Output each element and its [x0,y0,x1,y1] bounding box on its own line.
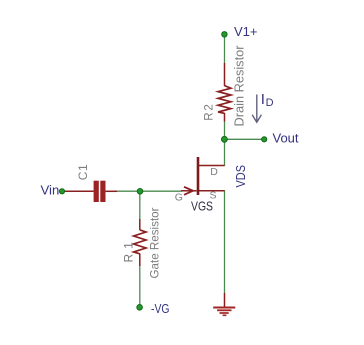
svg-text:D: D [210,166,218,178]
svg-text:Vin: Vin [41,182,60,197]
svg-text:Gate Resistor: Gate Resistor [148,207,162,278]
svg-text:-VG: -VG [151,302,170,316]
svg-text:R2: R2 [204,102,216,120]
svg-text:I: I [261,91,265,108]
svg-text:V1+: V1+ [234,24,258,39]
svg-text:D: D [266,97,274,109]
svg-text:Vout: Vout [273,130,299,145]
svg-text:R 1: R 1 [121,241,135,262]
svg-text:VDS: VDS [234,165,248,188]
svg-text:Drain Resistor: Drain Resistor [232,45,247,127]
svg-text:G: G [175,191,183,203]
svg-text:C1: C1 [76,164,90,180]
svg-text:S: S [210,190,217,202]
